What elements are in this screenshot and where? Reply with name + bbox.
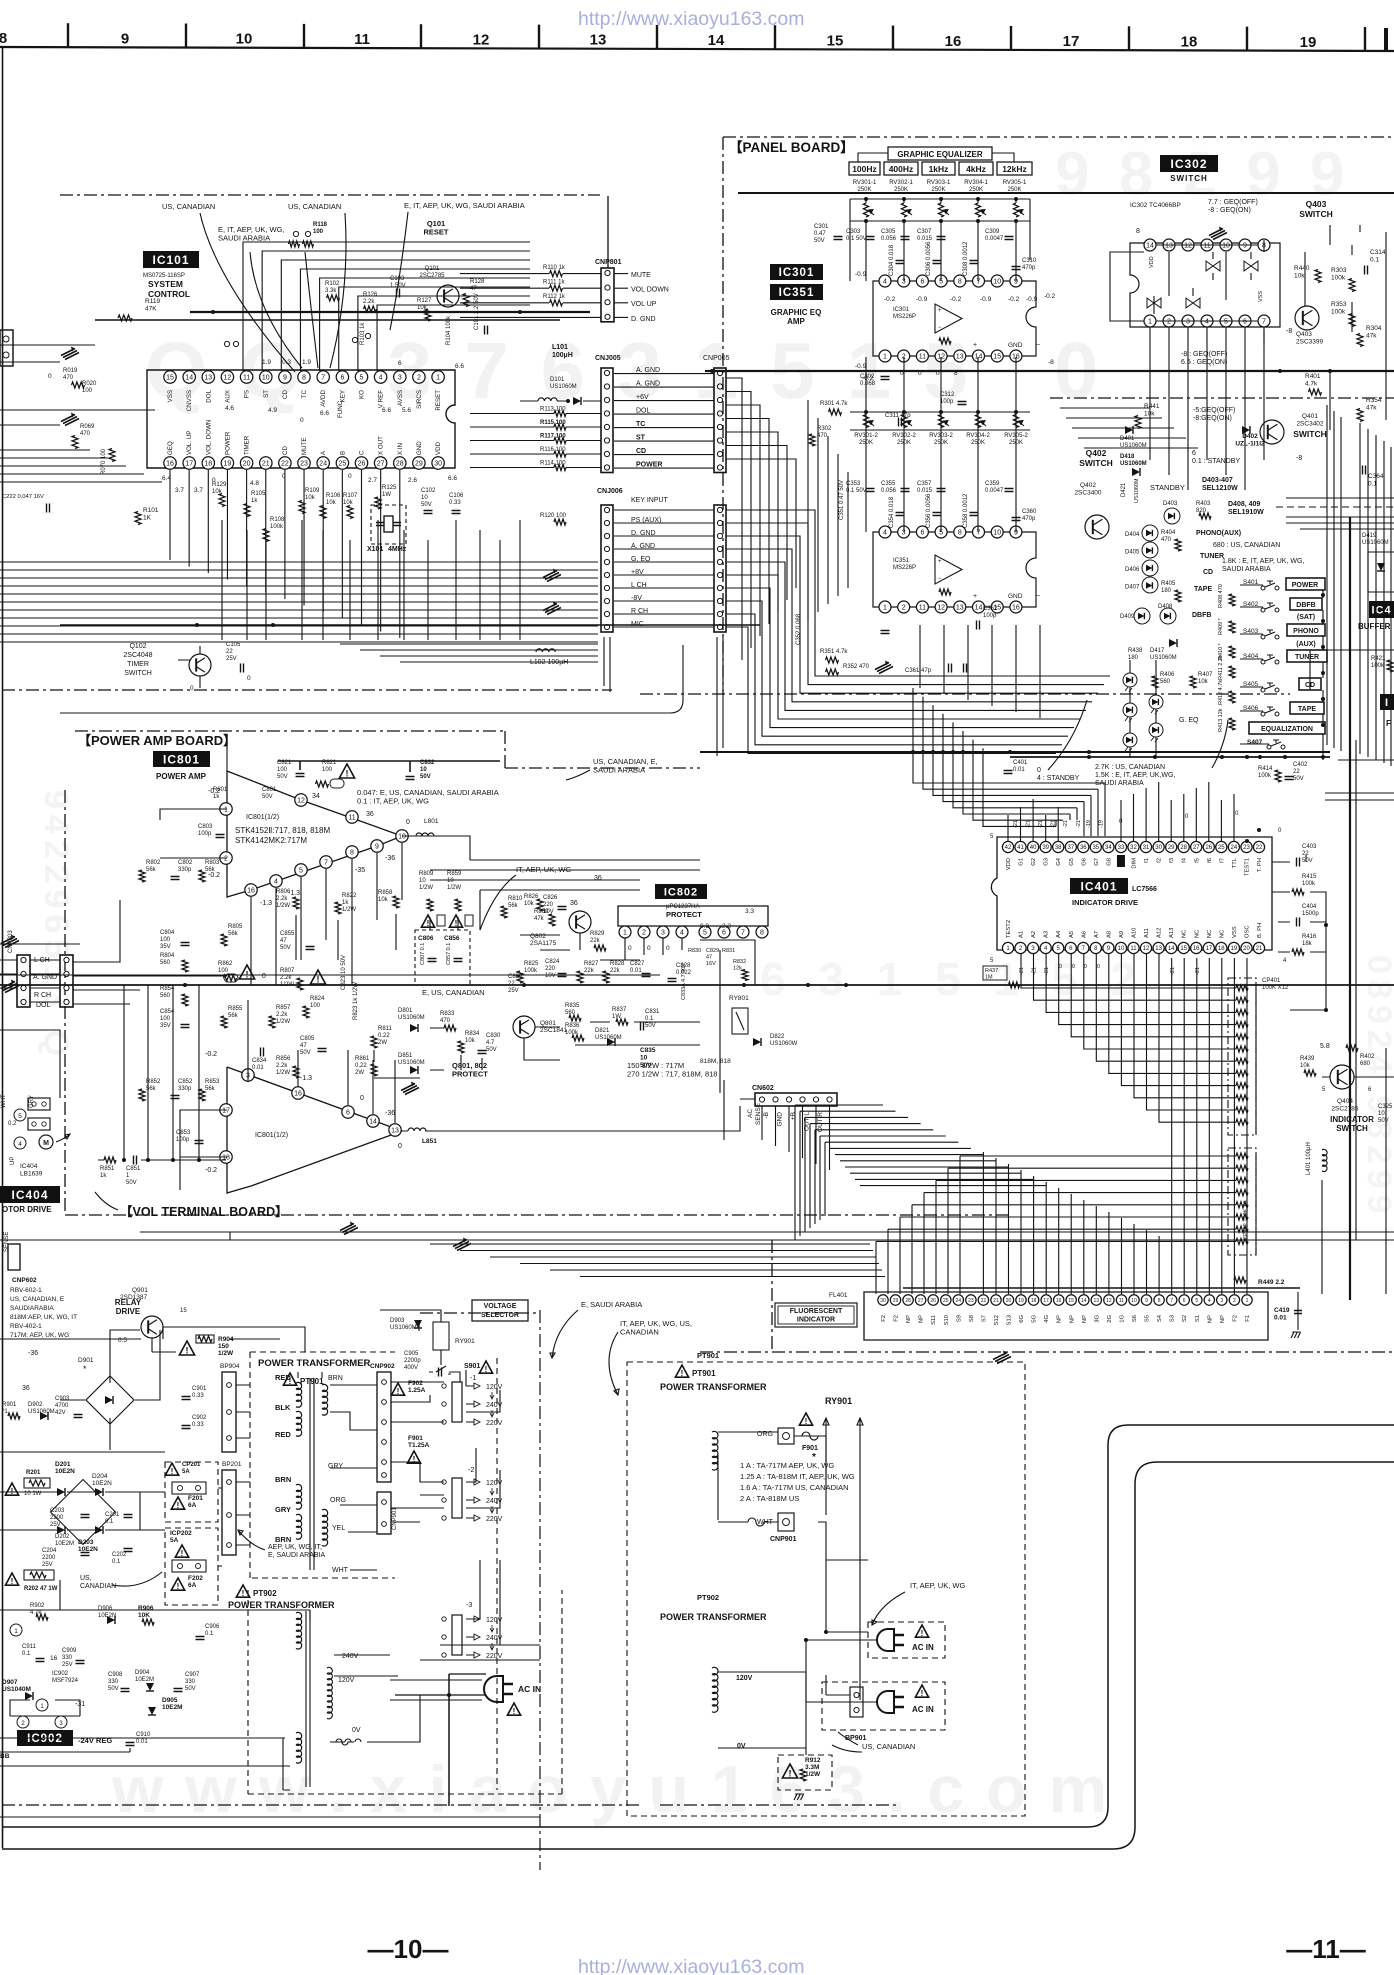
svg-text:NP: NP [1207, 1315, 1213, 1323]
svg-text:R806: R806 [276, 889, 291, 895]
svg-text:C829: C829 [706, 948, 719, 954]
svg-text:R809: R809 [419, 871, 434, 877]
svg-text:0.01: 0.01 [1013, 767, 1025, 773]
svg-text:-36: -36 [385, 855, 395, 862]
svg-text:PT901: PT901 [697, 1351, 719, 1360]
svg-text:9: 9 [283, 375, 287, 382]
svg-text:C910: C910 [136, 1732, 151, 1738]
svg-text:C312: C312 [940, 392, 955, 398]
svg-text:47: 47 [706, 955, 712, 961]
svg-text:S9: S9 [956, 1315, 962, 1322]
svg-text:717M: AEP, UK, WG: 717M: AEP, UK, WG [10, 1332, 69, 1339]
frame page11 outer [2, 1425, 1394, 1827]
svg-text:Q403: Q403 [1296, 331, 1312, 338]
svg-text:IC401: IC401 [1080, 879, 1117, 893]
resistor R829 [590, 931, 606, 951]
svg-text:22: 22 [281, 461, 289, 468]
diode D401 [1120, 426, 1147, 449]
svg-text:470p: 470p [1022, 265, 1036, 271]
svg-text:B: B [339, 451, 346, 455]
svg-text:0.01: 0.01 [252, 1065, 264, 1071]
resistor R441 [1135, 403, 1160, 429]
switch S407 EQUALIZATION [1247, 722, 1325, 749]
svg-text:BRN: BRN [328, 1375, 343, 1382]
svg-text:0: 0 [1059, 964, 1062, 970]
svg-text:SWITCH: SWITCH [1299, 209, 1333, 219]
svg-text:C908: C908 [108, 1672, 123, 1678]
svg-text:560: 560 [160, 993, 171, 999]
IC802 pins [618, 906, 768, 952]
wire bundle cnp006 to panel [726, 510, 1110, 753]
svg-text:Q401: Q401 [1302, 413, 1318, 420]
svg-text:C801: C801 [262, 787, 277, 793]
svg-text:G3: G3 [1044, 858, 1050, 866]
svg-text:GND: GND [416, 441, 423, 455]
svg-text:SWITCH: SWITCH [1079, 458, 1113, 468]
svg-text:R202 47 1W: R202 47 1W [24, 1586, 58, 1592]
labels CN602 [747, 1102, 824, 1132]
svg-text:5: 5 [299, 868, 303, 875]
connector CNP801 [595, 259, 622, 322]
svg-text:D202: D202 [55, 1534, 70, 1540]
svg-text:R354: R354 [1366, 397, 1382, 404]
svg-text:-35: -35 [355, 867, 365, 874]
svg-text:SWITCH: SWITCH [1293, 429, 1327, 439]
svg-text:0.0047: 0.0047 [985, 236, 1004, 242]
svg-text:R827: R827 [584, 961, 599, 967]
svg-text:MUTE: MUTE [301, 437, 308, 455]
svg-text:DOL: DOL [636, 408, 651, 415]
svg-text:GND: GND [777, 1112, 784, 1127]
svg-text:-19: -19 [1086, 820, 1092, 828]
svg-text:10: 10 [1378, 1111, 1385, 1117]
diode D801 [398, 1008, 425, 1032]
svg-text:47k: 47k [1366, 404, 1377, 411]
svg-text:400Hz: 400Hz [889, 164, 914, 174]
svg-text:4.9: 4.9 [268, 407, 277, 414]
svg-text:US1060M: US1060M [398, 1060, 425, 1066]
svg-text:VDD: VDD [1149, 256, 1155, 268]
svg-text:TEST2: TEST2 [1006, 920, 1012, 938]
svg-text:15: 15 [166, 375, 174, 382]
svg-text:SWITCH: SWITCH [124, 670, 152, 677]
svg-text:6: 6 [340, 375, 344, 382]
svg-text:13: 13 [1094, 1298, 1100, 1304]
dashed box pt902 left [248, 1590, 562, 1794]
svg-text:0.01: 0.01 [1274, 1314, 1287, 1321]
svg-text:IC302 TC4066BP: IC302 TC4066BP [1130, 202, 1181, 209]
svg-text:C833A 4.7 50V: C833A 4.7 50V [681, 963, 687, 1000]
svg-text:FLUORESCENT: FLUORESCENT [790, 1308, 843, 1315]
svg-text:A11: A11 [1144, 928, 1150, 938]
svg-text:6: 6 [722, 930, 726, 937]
svg-text:C909: C909 [62, 1648, 77, 1654]
switch S406 TAPE [1243, 702, 1324, 716]
svg-text:30: 30 [434, 461, 442, 468]
junction dots bundle [806, 750, 965, 987]
svg-text:35V: 35V [160, 944, 171, 950]
svg-text:10V: 10V [545, 973, 556, 979]
svg-text:680: 680 [1360, 1061, 1371, 1067]
svg-text:A6: A6 [1081, 931, 1087, 938]
svg-text:F2: F2 [1232, 1315, 1238, 1322]
svg-text:10K: 10K [138, 1612, 150, 1619]
motor M [39, 1134, 70, 1149]
svg-text:R801: R801 [213, 787, 228, 793]
svg-text:A8: A8 [1106, 931, 1112, 938]
svg-text:18: 18 [204, 461, 212, 468]
svg-text:TTL: TTL [1232, 857, 1238, 868]
svg-text:R807: R807 [280, 968, 295, 974]
svg-text:8: 8 [760, 930, 764, 937]
svg-text:AVSS: AVSS [397, 390, 404, 406]
resistor R106 [320, 493, 341, 519]
svg-text:US1060М: US1060М [1362, 540, 1389, 546]
resistor R439 [1300, 1056, 1316, 1076]
svg-text:R856: R856 [276, 1056, 291, 1062]
svg-text:11: 11 [348, 815, 355, 822]
svg-text:BP201: BP201 [222, 1461, 242, 1468]
resistor R201 [5, 1470, 50, 1497]
svg-text:39: 39 [1042, 845, 1049, 851]
svg-text:C351 0.47 50V: C351 0.47 50V [839, 480, 845, 520]
svg-text:13: 13 [204, 375, 212, 382]
svg-text:C902: C902 [192, 1415, 207, 1421]
svg-text:【POWER AMP BOARD】: 【POWER AMP BOARD】 [78, 733, 236, 748]
svg-text:R804: R804 [160, 953, 175, 959]
resistor R304 [1357, 325, 1382, 347]
svg-text:NP: NP [1057, 1315, 1063, 1323]
svg-text:−: − [1036, 593, 1040, 600]
svg-text:56k: 56k [205, 1086, 216, 1092]
svg-text:R826: R826 [524, 894, 539, 900]
svg-text:AUX: AUX [224, 390, 231, 403]
svg-text:R832: R832 [733, 959, 746, 965]
svg-text:0: 0 [1037, 767, 1041, 774]
IC802 label [655, 884, 707, 919]
bottom dashdot border psu [2, 1804, 900, 1806]
resistor network CP401 [1228, 978, 1289, 1135]
warning tri amp2 [239, 965, 254, 979]
svg-text:R825: R825 [524, 961, 539, 967]
svg-text:C903: C903 [55, 1396, 70, 1402]
wire bus IC101 top to right [243, 242, 530, 371]
svg-text:100: 100 [218, 968, 229, 974]
svg-text:56k: 56k [228, 931, 239, 937]
IC401 label [1070, 878, 1157, 907]
svg-text:E, IT, AEP, UK, WG, SAUDI ARAB: E, IT, AEP, UK, WG, SAUDI ARABIA [404, 201, 525, 210]
svg-text:-21: -21 [1063, 820, 1069, 828]
svg-text:942296513 Q: 942296513 Q [37, 790, 75, 1062]
svg-text:US1060М: US1060М [1150, 655, 1177, 661]
svg-text:2.7: 2.7 [368, 477, 377, 484]
connector CNJ006 [597, 488, 669, 632]
svg-text:14: 14 [185, 375, 193, 382]
wire bus left horizontal [0, 450, 598, 642]
svg-text:B. PH: B. PH [1257, 923, 1263, 938]
svg-text:0.1: 0.1 [112, 1559, 121, 1565]
svg-text:13: 13 [1155, 946, 1162, 952]
diode D821 [595, 1028, 622, 1046]
wire switch column [1240, 585, 1325, 760]
svg-text:US,: US, [80, 1575, 92, 1582]
svg-text:08924 98299: 08924 98299 [1360, 955, 1394, 1220]
svg-text:C102: C102 [421, 488, 436, 494]
svg-text:CD: CD [1203, 569, 1213, 576]
wires amp to indicator horizontals [430, 1244, 885, 1277]
svg-text:-0.9: -0.9 [1026, 296, 1038, 303]
svg-text:D409: D409 [1120, 614, 1135, 620]
svg-text:18: 18 [1218, 946, 1225, 952]
svg-text:IC4: IC4 [1371, 605, 1391, 617]
IC101 pin names bottom [167, 420, 442, 455]
svg-text:STANDBY: STANDBY [1150, 483, 1185, 492]
svg-text:50V: 50V [280, 945, 291, 951]
pin voltages IC801a [208, 788, 410, 907]
svg-text:400V: 400V [404, 1365, 418, 1371]
svg-text:INDICATOR DRIVE: INDICATOR DRIVE [1072, 898, 1138, 907]
svg-text:2G: 2G [1107, 1315, 1113, 1323]
svg-text:VSS: VSS [1258, 291, 1264, 302]
op-amp IC101 body [147, 370, 455, 468]
svg-text:SAUDI ARABIA: SAUDI ARABIA [1222, 566, 1271, 573]
svg-text:15: 15 [1068, 1298, 1074, 1304]
svg-text:15: 15 [993, 354, 1001, 361]
svg-text:36: 36 [570, 900, 578, 907]
svg-text:8: 8 [350, 850, 354, 857]
svg-text:18: 18 [1031, 1298, 1037, 1304]
pin voltages IC801b [205, 1051, 402, 1174]
svg-text:1.25A: 1.25A [408, 1387, 426, 1394]
svg-text:TC: TC [301, 389, 308, 398]
svg-text:10: 10 [236, 31, 253, 48]
capacitor C362 [977, 606, 999, 630]
svg-text:14: 14 [369, 1119, 377, 1126]
svg-text:16: 16 [294, 1091, 302, 1098]
svg-text:4: 4 [883, 279, 887, 286]
svg-text:22: 22 [1256, 845, 1263, 851]
svg-text:-B: -B [763, 1112, 770, 1119]
svg-text:PROTECT: PROTECT [666, 910, 702, 919]
ground psu right [794, 1794, 804, 1800]
svg-text:!: ! [242, 1589, 245, 1598]
svg-text:1: 1 [623, 930, 627, 937]
svg-text:30: 30 [880, 1298, 886, 1304]
svg-text:16: 16 [166, 461, 174, 468]
svg-text:0: 0 [360, 1095, 364, 1102]
svg-text:SIRCS: SIRCS [416, 390, 423, 409]
transistor Q901 relay drive [115, 1287, 188, 1344]
svg-text:0: 0 [247, 675, 251, 682]
svg-text:C314: C314 [1370, 249, 1386, 256]
svg-text:Q901: Q901 [132, 1287, 148, 1294]
svg-text:f4: f4 [1182, 857, 1188, 863]
svg-text:2SC2785: 2SC2785 [1331, 1106, 1358, 1113]
diode D822 [753, 1034, 798, 1047]
connector CNP803 [8, 930, 73, 1007]
svg-text:13: 13 [1165, 243, 1173, 250]
svg-text:R851: R851 [100, 1166, 115, 1172]
svg-text:RESET: RESET [435, 390, 442, 411]
svg-text:SENSE: SENSE [755, 1102, 762, 1125]
svg-text:—10—: —10— [368, 1934, 449, 1964]
resistor R414 [1258, 766, 1281, 782]
resistor R449 [1234, 1277, 1285, 1286]
pin voltages IC301 [855, 271, 1056, 382]
svg-text:-21: -21 [1032, 967, 1038, 975]
op-amp IC301 [873, 275, 1040, 362]
fuse F902 [391, 1380, 425, 1396]
svg-text:15: 15 [1180, 946, 1187, 952]
resistors R825 C824 R827 R828 C827 C828 [517, 959, 692, 983]
svg-text:5: 5 [1224, 319, 1228, 326]
svg-text:BP904: BP904 [220, 1363, 240, 1370]
svg-text:17: 17 [1063, 33, 1080, 50]
svg-text:4: 4 [18, 1141, 22, 1148]
connector CNP006 [714, 505, 726, 632]
svg-text:47: 47 [470, 286, 477, 292]
LED group [1123, 673, 1199, 752]
svg-text:C826: C826 [543, 895, 558, 901]
svg-text:2 A : TA-818M US: 2 A : TA-818M US [740, 1494, 799, 1503]
svg-text:0: 0 [348, 473, 352, 480]
svg-text:VOL. UP: VOL. UP [186, 431, 193, 455]
svg-text:C851: C851 [126, 1166, 141, 1172]
svg-text:9: 9 [375, 844, 379, 851]
svg-text:6G: 6G [1019, 1315, 1025, 1323]
relay RY801 [729, 995, 749, 1034]
svg-text:-0.2: -0.2 [950, 296, 962, 303]
svg-text:R411 2.2k: R411 2.2k [1218, 655, 1224, 680]
svg-text:D907: D907 [2, 1679, 18, 1686]
svg-text:R019: R019 [63, 368, 78, 374]
transistor Q102 timer switch [123, 643, 211, 692]
svg-text:12: 12 [1184, 243, 1192, 250]
svg-text:E, US, CANADIAN: E, US, CANADIAN [422, 988, 485, 997]
svg-text:RY901: RY901 [825, 1396, 852, 1406]
svg-text:F2: F2 [894, 1315, 900, 1322]
curve leader standby [1048, 700, 1228, 770]
svg-text:R119: R119 [145, 298, 160, 305]
svg-text:7: 7 [741, 930, 745, 937]
svg-text:R402: R402 [1360, 1054, 1375, 1060]
svg-text:D418: D418 [1120, 454, 1135, 460]
svg-text:-21: -21 [1170, 967, 1176, 975]
svg-text:VOL DOWN: VOL DOWN [631, 287, 669, 294]
labels RV301-2.. [854, 433, 1028, 446]
svg-text:C404: C404 [1302, 904, 1317, 910]
winding pt901 right primary [712, 1431, 718, 1470]
svg-text:R803: R803 [205, 860, 220, 866]
arrows cnp803 [1, 937, 19, 948]
capacitor C325 [1378, 1104, 1393, 1124]
svg-text:G1: G1 [1019, 858, 1025, 866]
svg-text:C303: C303 [846, 229, 861, 235]
svg-text:D801: D801 [398, 1008, 413, 1014]
svg-text:R069: R069 [80, 424, 95, 430]
svg-text:D. GND: D. GND [631, 316, 656, 323]
svg-text:TAPE: TAPE [1194, 586, 1212, 593]
resistor R301 [820, 401, 848, 415]
svg-text:R020: R020 [82, 381, 97, 387]
svg-text:2.2k: 2.2k [280, 975, 292, 981]
svg-text:TC: TC [636, 421, 645, 428]
connector CNP901 right [718, 1513, 797, 1543]
svg-text:IC301: IC301 [893, 307, 910, 313]
svg-text:6A: 6A [188, 1582, 197, 1589]
svg-text:C802: C802 [178, 860, 193, 866]
svg-text:MUTE: MUTE [631, 272, 651, 279]
svg-text:R125: R125 [382, 485, 397, 491]
svg-text:-0.9: -0.9 [980, 296, 992, 303]
svg-text:TIMER: TIMER [127, 661, 149, 668]
op-amp IC351 [873, 526, 1040, 613]
transistor Q404 [1320, 1043, 1374, 1133]
svg-text:IC801: IC801 [163, 752, 200, 766]
svg-text:25V: 25V [42, 1562, 53, 1568]
winding PT902 left [228, 1585, 335, 1787]
svg-text:14: 14 [1168, 946, 1175, 952]
svg-text:22k: 22k [584, 968, 595, 974]
diode D902 [28, 1402, 55, 1420]
resistors R113-R114 [470, 407, 601, 471]
svg-text:TAPE: TAPE [1298, 706, 1316, 713]
svg-text:8: 8 [958, 279, 962, 286]
svg-text:R862: R862 [218, 961, 233, 967]
svg-text:CNP005: CNP005 [703, 355, 730, 362]
wire bundle down to indicator [913, 688, 1105, 836]
svg-text:!: ! [181, 1549, 184, 1558]
svg-text:C830: C830 [486, 1033, 501, 1039]
svg-text:US, CANADIAN: US, CANADIAN [288, 202, 341, 211]
diode D903 [390, 1318, 422, 1331]
wire bus mid verticals [222, 520, 520, 640]
svg-text:4700: 4700 [55, 1403, 69, 1409]
svg-text:CANADIAN: CANADIAN [80, 1583, 116, 1590]
svg-text:100k: 100k [1302, 881, 1316, 887]
svg-text:41: 41 [1017, 845, 1024, 851]
IC101 label [143, 251, 199, 299]
board outline pt901 right [627, 1362, 1025, 1816]
svg-text:A10: A10 [1132, 928, 1138, 938]
svg-text:10k: 10k [326, 500, 337, 506]
svg-text:22: 22 [981, 1298, 987, 1304]
svg-text:+: + [973, 593, 977, 600]
wire pt901 left mesh [0, 1310, 460, 1570]
resistor R402 [1346, 1045, 1375, 1067]
svg-text:17: 17 [1205, 946, 1212, 952]
svg-text:19: 19 [224, 461, 232, 468]
svg-text:6 3 1 5 1 5 2: 6 3 1 5 1 5 2 [760, 953, 1146, 1005]
svg-text:15: 15 [827, 32, 844, 49]
svg-text:S7: S7 [981, 1315, 987, 1322]
svg-text:0.1: 0.1 [205, 1631, 214, 1637]
svg-text:-21: -21 [1026, 820, 1032, 828]
IC101 bottom pins 16-30 [164, 457, 445, 469]
svg-text:NP: NP [919, 1315, 925, 1323]
connector CN602 [752, 1085, 837, 1106]
capacitor C835 [640, 1047, 656, 1069]
svg-text:100: 100 [277, 767, 288, 773]
svg-text:2200: 2200 [42, 1555, 56, 1561]
svg-text:R409 *: R409 * [1218, 617, 1224, 635]
svg-text:RED: RED [275, 1373, 291, 1382]
svg-text:R408 470: R408 470 [1218, 584, 1224, 608]
diode D403 [1163, 501, 1180, 524]
svg-text:E, SAUDI ARABIA: E, SAUDI ARABIA [581, 1300, 642, 1309]
capacitor C106 [449, 493, 464, 514]
svg-text:50V: 50V [185, 1686, 196, 1692]
